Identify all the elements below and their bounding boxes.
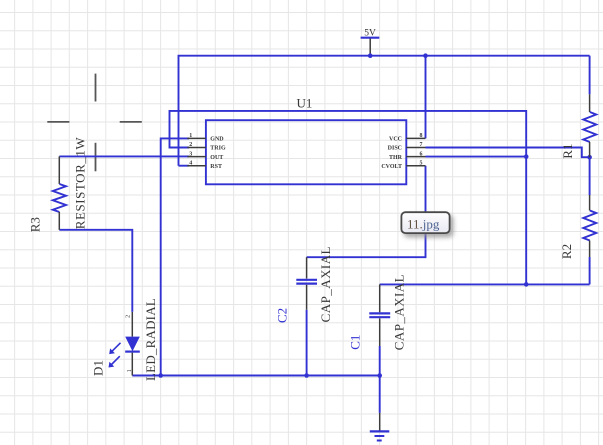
junction dot — [304, 373, 309, 378]
svg-text:U1: U1 — [297, 96, 313, 111]
svg-text:3: 3 — [189, 151, 192, 157]
wire OUT to R3 — [59, 155, 189, 157]
pin 3 OUT — [187, 151, 223, 161]
wire VCC up to rail — [425, 56, 427, 139]
svg-text:4: 4 — [189, 160, 192, 166]
wire node to R2 bottom rail — [380, 283, 590, 285]
wire ground rail bottom — [132, 375, 379, 377]
wire THR to node — [426, 156, 527, 158]
junction dot — [423, 53, 428, 58]
pin 4 RST — [187, 160, 222, 170]
svg-text:RST: RST — [210, 164, 222, 170]
svg-text:R2: R2 — [559, 244, 574, 259]
wire C1 bottom — [379, 346, 381, 376]
pin 2 TRIG — [187, 142, 226, 152]
svg-text:5: 5 — [420, 160, 423, 166]
pin 7 DISC — [388, 142, 426, 152]
svg-text:D1: D1 — [91, 360, 106, 376]
wire TRIG loop top — [170, 111, 527, 285]
capacitor C1 — [369, 284, 390, 346]
LED arrow 2 — [109, 356, 120, 367]
junction dot — [368, 53, 373, 58]
svg-text:7: 7 — [420, 142, 423, 148]
wire C2 bottom — [306, 310, 308, 376]
wire R1 bottom to R2 top — [589, 157, 591, 195]
svg-text:5V: 5V — [364, 28, 376, 38]
pin 8 VCC — [389, 133, 426, 143]
svg-text:OUT: OUT — [210, 155, 223, 161]
svg-text:8: 8 — [420, 133, 423, 139]
wire DISC to R1 — [426, 148, 590, 158]
svg-text:VCC: VCC — [389, 137, 402, 143]
LED D1 — [125, 312, 140, 376]
wire 5V rail — [179, 56, 590, 166]
pin 5 CVOLT — [381, 160, 425, 170]
svg-text:2: 2 — [126, 315, 132, 318]
svg-text:DISC: DISC — [388, 146, 402, 152]
svg-text:CAP_AXIAL: CAP_AXIAL — [318, 246, 333, 322]
svg-text:GND: GND — [210, 137, 224, 143]
svg-text:6: 6 — [420, 151, 423, 157]
svg-text:2: 2 — [189, 142, 192, 148]
svg-text:R3: R3 — [27, 217, 42, 232]
ground — [370, 413, 390, 441]
svg-text:CVOLT: CVOLT — [381, 164, 402, 170]
resistor R1 — [583, 94, 596, 157]
power port 5V — [361, 28, 380, 55]
resistor R2 — [583, 195, 596, 257]
wire R3 bottom to LED top — [59, 230, 132, 312]
svg-text:THR: THR — [389, 155, 403, 161]
pin 1 GND — [187, 133, 224, 143]
capacitor C2 — [296, 257, 317, 310]
junction dot — [587, 155, 592, 160]
svg-text:1: 1 — [189, 133, 192, 139]
svg-text:11.jpg: 11.jpg — [407, 216, 440, 231]
svg-text:1: 1 — [127, 369, 133, 372]
junction dot — [377, 373, 382, 378]
pin 6 THR — [389, 151, 426, 161]
resistor R3 — [53, 156, 66, 229]
wire GND pin down — [161, 138, 189, 375]
svg-text:TRIG: TRIG — [210, 146, 226, 152]
op-amp U1 body — [206, 120, 406, 184]
cursor crosshair — [47, 74, 142, 172]
wire R2 bottom corner — [589, 257, 591, 284]
junction dot — [524, 154, 529, 159]
svg-text:RESISTOR_1W: RESISTOR_1W — [72, 137, 87, 230]
wire R1 top feed — [589, 56, 591, 95]
wire to ground symbol — [379, 376, 381, 413]
junction dot — [524, 282, 529, 287]
wire CVOLT to C2 — [307, 166, 426, 258]
svg-text:R1: R1 — [560, 144, 575, 159]
wire RST to rail stub — [179, 165, 190, 167]
svg-text:C2: C2 — [274, 308, 289, 323]
junction dot — [158, 373, 163, 378]
svg-text:LED_RADIAL: LED_RADIAL — [143, 298, 158, 381]
svg-text:CAP_AXIAL: CAP_AXIAL — [391, 274, 406, 350]
LED arrow 1 — [109, 343, 120, 354]
svg-text:C1: C1 — [348, 335, 363, 350]
